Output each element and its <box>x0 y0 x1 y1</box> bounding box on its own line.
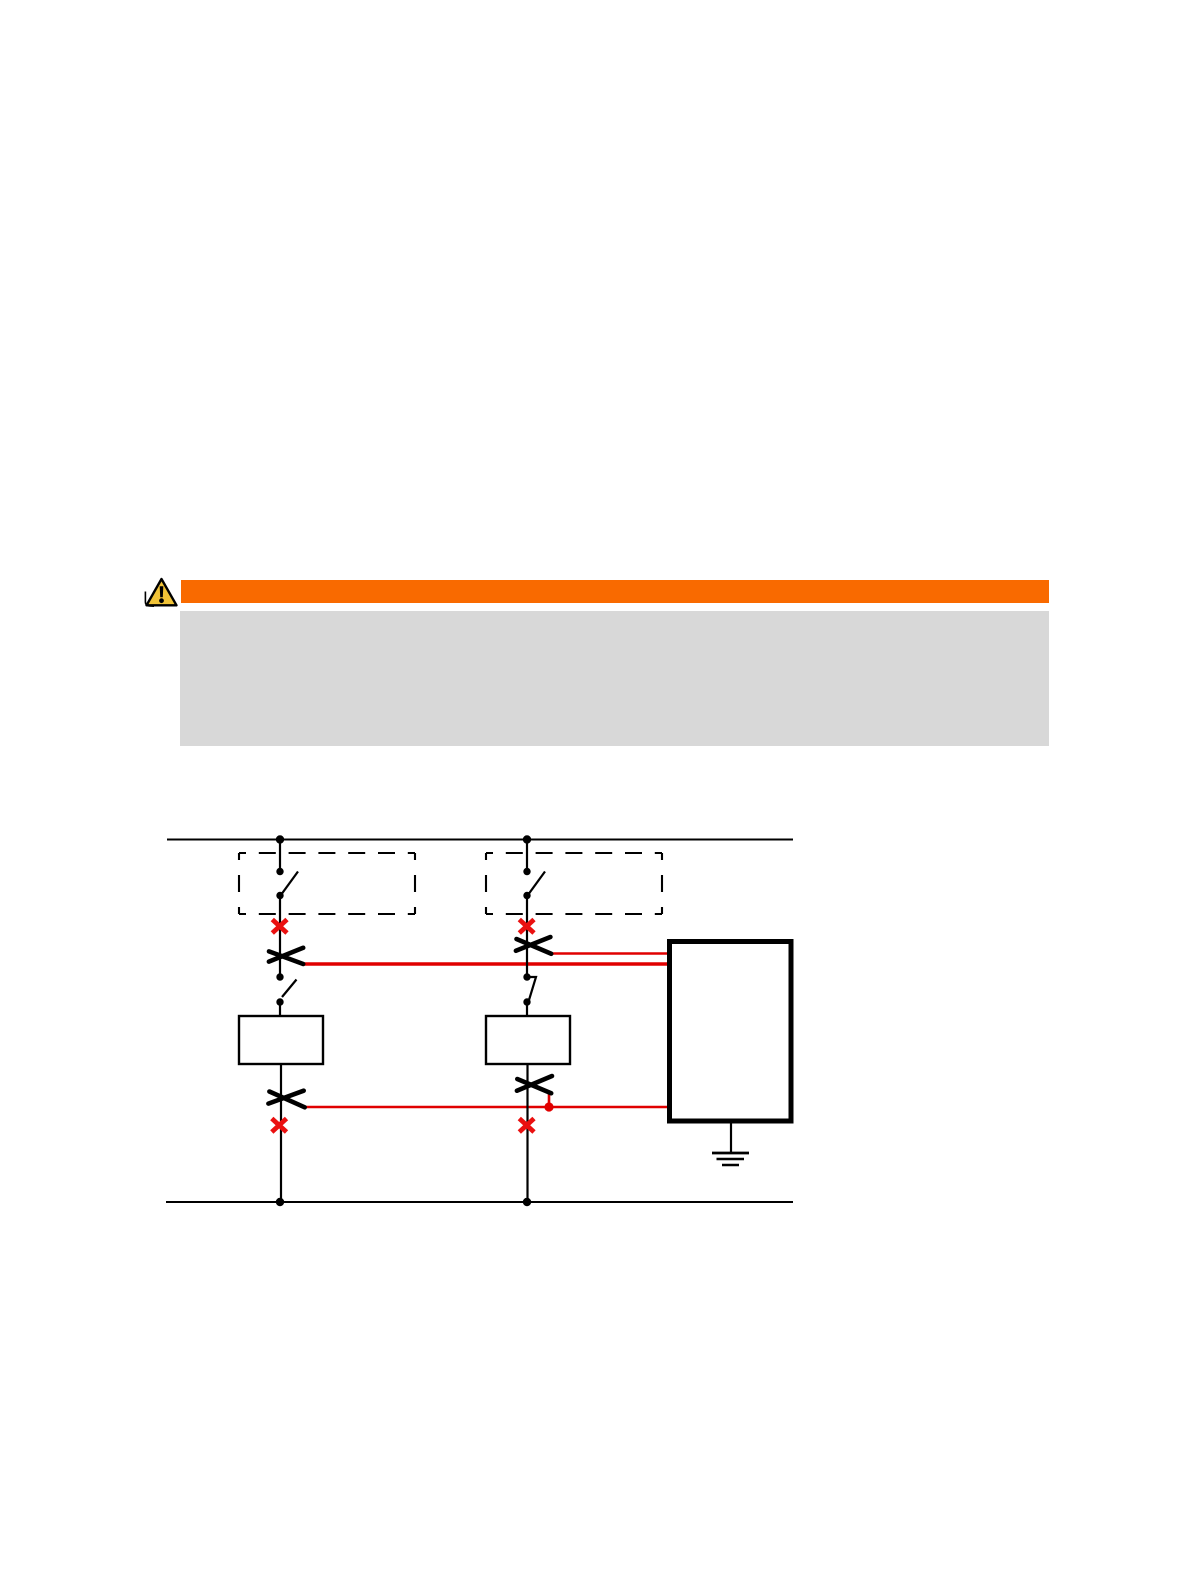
measuring lead L2 (red) to voltmeter <box>551 952 668 955</box>
wire: Q1 to S1 <box>279 896 281 978</box>
switch Q1 top contact <box>276 868 283 875</box>
switch S1 blade (open) <box>282 980 297 998</box>
warning triangle icon <box>145 579 176 606</box>
node: branch 1 on bottom bus <box>276 1198 284 1206</box>
measuring probe X (branch 2, lower) <box>517 1076 552 1093</box>
switch S1 bottom contact <box>276 998 283 1005</box>
red X isolation marker (branch 1 top) <box>272 920 287 934</box>
measuring probe X (branch 2, upper) <box>516 937 551 954</box>
load box 2 <box>486 1016 570 1064</box>
top busbar wire <box>167 839 793 841</box>
load box 1 <box>239 1016 323 1064</box>
switch S2 bottom contact <box>523 998 530 1005</box>
red X isolation marker (branch 1 bottom) <box>272 1119 287 1133</box>
switch Q2 bottom contact <box>523 892 530 899</box>
wire: load box 2 to bottom bus <box>526 1064 528 1202</box>
measuring lead L1 (red, thick) to voltmeter <box>304 962 668 966</box>
warning body box (gray) <box>180 611 1049 746</box>
measuring probe X (branch 1, lower) <box>268 1091 304 1108</box>
bottom busbar wire <box>166 1201 793 1203</box>
voltmeter / measuring device box <box>670 942 792 1122</box>
measuring probe X (branch 1, upper) <box>269 948 303 964</box>
node: branch 1 tap on top bus <box>276 835 284 843</box>
wire: voltmeter to ground <box>730 1123 732 1153</box>
red X isolation marker (branch 2 top) <box>519 920 534 934</box>
warning title bar (orange) <box>181 580 1049 603</box>
wire: top bus to switch Q2 <box>526 840 528 872</box>
dashed enclosure of disconnector Q2 <box>486 853 662 914</box>
switch S2 top contact <box>523 973 530 980</box>
switch S2 blade (closed, 7-shape) <box>529 977 537 1001</box>
measuring lead N (red) to voltmeter <box>305 1106 668 1109</box>
red X isolation marker (branch 2 bottom) <box>519 1119 534 1133</box>
switch Q1 bottom contact <box>276 892 283 899</box>
wire: S2 to load box 2 <box>526 1002 528 1016</box>
wire: S1 to load box 1 <box>279 1002 281 1016</box>
red probe connector (vertical, branch 2 lower) <box>548 1092 551 1105</box>
switch S1 top contact <box>276 973 283 980</box>
switch Q2 top contact <box>523 868 530 875</box>
wire: Q2 down through probes to S2 <box>526 896 528 978</box>
wire: load box 1 to bottom bus <box>280 1064 282 1202</box>
red junction dot on lead N <box>544 1102 553 1111</box>
node: branch 2 tap on top bus <box>523 835 531 843</box>
dashed enclosure of disconnector Q1 <box>239 853 415 914</box>
node: branch 2 on bottom bus <box>523 1198 531 1206</box>
ground symbol <box>712 1153 749 1165</box>
switch Q2 blade (open) <box>529 872 545 894</box>
switch Q1 blade (open) <box>282 872 298 894</box>
wire: top bus to switch Q1 <box>279 840 281 872</box>
